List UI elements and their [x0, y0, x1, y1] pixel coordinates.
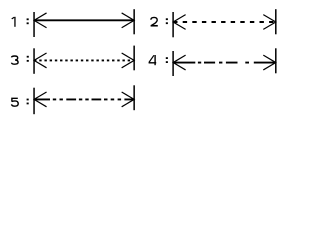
row 4 extension bar left: [172, 51, 174, 76]
label digit 4: [149, 55, 157, 65]
label 3 colon: [27, 56, 29, 62]
row 5 dimension line dash-dot-dot segments: [34, 98, 134, 100]
row 5 extension bar right: [133, 85, 135, 110]
row 1 dimension line solid: [34, 19, 134, 21]
row 1 left arrowhead: [34, 13, 47, 28]
row 2 extension bar left: [172, 12, 174, 37]
label digit 2: [151, 17, 158, 25]
label 2 colon: [166, 18, 168, 24]
row 4 extension bar right: [275, 48, 277, 73]
label digit 5: [12, 98, 19, 106]
label digit 3: [12, 56, 19, 64]
row 2 right arrowhead: [263, 15, 276, 30]
row 4 left arrowhead: [173, 55, 186, 70]
row 1 extension bar right: [133, 9, 135, 34]
label digit 1: [12, 17, 15, 27]
row 3 extension bar left: [33, 48, 35, 74]
row 5 left arrowhead: [34, 92, 47, 107]
row 2 dimension line dashed: [173, 21, 276, 23]
row 2 left arrowhead: [173, 15, 186, 30]
row 3 dimension line dotted: [34, 59, 134, 61]
row 3 right arrowhead: [122, 53, 134, 68]
row 2 extension bar right: [275, 9, 277, 34]
row 4 right arrowhead: [263, 55, 276, 70]
row 5 extension bar left: [33, 88, 35, 115]
row 1 right arrowhead: [122, 13, 134, 28]
row 3 extension bar right: [133, 46, 135, 71]
row 3 left arrowhead: [34, 53, 47, 68]
row 5 right arrowhead: [122, 92, 134, 107]
label 1 colon: [27, 18, 29, 24]
row 1 extension bar left: [33, 12, 35, 37]
row 4 dimension line dash-dot segments: [173, 62, 276, 64]
label 5 colon: [27, 99, 29, 105]
label 4 colon: [166, 57, 168, 63]
